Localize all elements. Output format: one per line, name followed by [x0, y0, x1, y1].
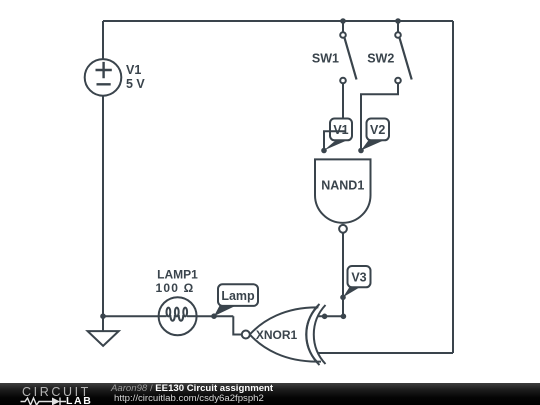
nand gate NAND1 [315, 159, 371, 232]
wire SW1 to V1 flag [342, 84, 344, 119]
lamp LAMP1 [159, 297, 197, 335]
wire right rail [452, 21, 454, 353]
junction xnor top input pin [322, 314, 328, 320]
ground [88, 331, 119, 346]
svg-text:SW2: SW2 [367, 52, 394, 66]
svg-text:XNOR1: XNOR1 [256, 328, 298, 342]
svg-text:V1: V1 [126, 63, 141, 77]
svg-text:SW1: SW1 [312, 52, 339, 66]
footer url line [114, 394, 264, 404]
wire SW1 top stub [342, 21, 344, 32]
flag V3 [343, 266, 371, 297]
svg-text:V3: V3 [351, 271, 366, 285]
node V1 nand input A [321, 148, 327, 154]
switch SW1 [340, 32, 356, 83]
wire V1 flag jog [324, 131, 346, 150]
wire to xnor top input [318, 315, 343, 317]
wire SW2 to NAND input B [361, 84, 398, 151]
svg-text:Lamp: Lamp [221, 289, 255, 303]
node Lamp [211, 313, 217, 319]
svg-text:LAMP1: LAMP1 [157, 268, 198, 282]
switch SW2 [395, 32, 412, 83]
wire ground node to lamp [103, 315, 159, 317]
flag V2 [361, 119, 389, 151]
svg-text:100 Ω: 100 Ω [156, 281, 195, 295]
footer title line [111, 384, 273, 394]
wire NAND output to node V3 [342, 233, 344, 316]
svg-text:NAND1: NAND1 [321, 179, 364, 193]
wire lamp to Lamp node [197, 315, 234, 317]
wire V1 top stub [102, 21, 104, 59]
svg-text:5 V: 5 V [126, 77, 145, 91]
wire SW2 top stub [397, 21, 399, 32]
circuitlab logo CIRCUIT [22, 385, 91, 399]
junction top rail SW1 [340, 18, 346, 24]
voltage source V1 [85, 59, 122, 96]
flag V1 pointer [324, 140, 347, 150]
junction ground node [100, 313, 106, 319]
wire top rail [103, 20, 453, 22]
circuitlab logo LAB [66, 395, 92, 405]
flag V1 [330, 119, 352, 141]
wire V1 bottom to ground node [102, 96, 104, 316]
xnor gate XNOR1 [242, 304, 326, 365]
node V3 [340, 295, 346, 301]
circuitlab logo squiggle [20, 396, 68, 405]
flag Lamp [214, 284, 258, 316]
node V2 nand input B [358, 148, 364, 154]
wire down to xnor output [233, 316, 241, 334]
wire xnor bottom input [318, 352, 453, 354]
junction top rail SW2 [395, 18, 401, 24]
svg-text:V2: V2 [370, 123, 385, 137]
wire ground stub [102, 316, 104, 331]
junction nand output corner [341, 314, 347, 320]
